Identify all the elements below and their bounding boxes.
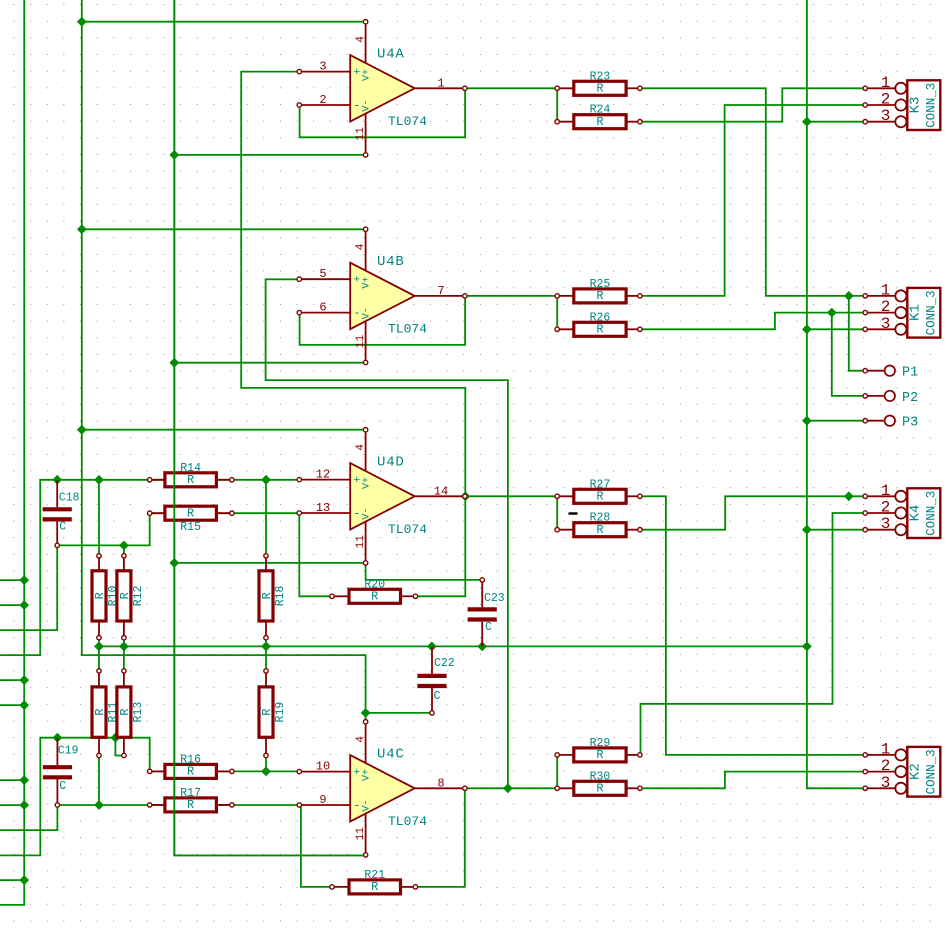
svg-text:1: 1 [881, 482, 891, 500]
wire R14 input line [0, 480, 299, 655]
svg-text:+: + [353, 275, 360, 287]
svg-text:1: 1 [881, 281, 891, 299]
resistor R12 [117, 554, 145, 640]
svg-text:R: R [596, 289, 603, 303]
resistor R29 [555, 737, 642, 762]
svg-text:2: 2 [881, 91, 891, 109]
junction at 81.8,229.3 [78, 225, 86, 233]
wire C18 bottom exit [0, 545, 57, 630]
capacitor C23 [468, 578, 505, 647]
wire U4D pin4 line [82, 429, 366, 431]
wire U4B out to R25 [465, 295, 557, 297]
wire C19 bottom exit [0, 805, 57, 830]
wire R27 to K2 pin1 [640, 496, 865, 755]
junction at 57.2,479.8 [53, 476, 61, 484]
wire R20 right to U4D out [415, 496, 465, 596]
svg-text:K1: K1 [908, 304, 924, 321]
junction at 24.2,780.1 [20, 776, 28, 784]
resistor R17 [148, 787, 235, 812]
wire U4B feedback loop [300, 296, 466, 345]
svg-text:-: - [353, 798, 360, 812]
svg-text:R: R [93, 708, 107, 715]
wire left stub row7 [0, 879, 24, 881]
wire U4B pin4 line [82, 228, 366, 230]
svg-text:3: 3 [881, 515, 891, 533]
svg-text:C22: C22 [434, 657, 455, 670]
wire R12 top stub [123, 545, 125, 555]
junction at 81.8,429.7 [78, 426, 86, 434]
svg-text:R15: R15 [180, 521, 201, 534]
svg-text:R: R [187, 798, 194, 812]
svg-text:C23: C23 [484, 592, 505, 605]
capacitor C19 [43, 738, 79, 808]
resistor R10 [92, 554, 120, 640]
pin P3 [863, 416, 918, 431]
junction at 266,646.4 [262, 642, 270, 650]
svg-text:K4: K4 [908, 505, 924, 522]
wire R13 bottom jog [115, 738, 124, 756]
resistor R25 [555, 278, 642, 303]
resistor R18 [259, 554, 287, 640]
svg-text:V+: V+ [362, 477, 373, 489]
svg-text:V-: V- [362, 307, 373, 319]
resistor R30 [555, 770, 642, 795]
svg-text:+: + [353, 767, 360, 779]
svg-text:V+: V+ [362, 277, 373, 289]
junction at 99,479.8 [95, 476, 103, 484]
svg-text:R: R [371, 590, 378, 604]
wire left stub row4 [0, 704, 24, 706]
svg-text:C: C [59, 521, 66, 534]
wire left stub row2 [0, 604, 24, 606]
wire U4A pin3 net to U4D output [241, 72, 465, 497]
wire P3 stub [807, 420, 865, 422]
svg-text:R: R [371, 880, 378, 894]
svg-text:K3: K3 [908, 97, 924, 114]
svg-text:10: 10 [316, 760, 330, 774]
svg-text:K2: K2 [908, 763, 924, 780]
svg-text:1: 1 [881, 74, 891, 92]
svg-text:2: 2 [881, 499, 891, 517]
wire K1 pin3 stub [807, 328, 865, 330]
svg-text:14: 14 [434, 484, 448, 498]
wire R11 bottom stub [98, 756, 100, 806]
resistor R27 [555, 478, 642, 503]
wire rail3 V- rail [174, 0, 364, 855]
svg-text:R: R [118, 708, 132, 715]
junction at 482.2,646.4 [478, 642, 486, 650]
wire R18 bottom stub [265, 638, 267, 647]
junction at 99,805.0 [95, 801, 103, 809]
svg-text:2: 2 [881, 298, 891, 316]
svg-text:R: R [596, 82, 603, 96]
svg-text:R12: R12 [132, 585, 145, 606]
wire U4C feedback via R21 [301, 805, 332, 887]
svg-text:CONN_3: CONN_3 [924, 491, 938, 536]
junction at 431.8,646.4 [428, 642, 436, 650]
wire C19 top line to R16 [0, 738, 299, 856]
junction at 174.3,562.9 [170, 559, 178, 567]
svg-text:3: 3 [881, 315, 891, 333]
svg-text:R: R [118, 592, 132, 599]
svg-text:8: 8 [437, 776, 444, 790]
svg-text:R: R [187, 765, 194, 779]
svg-text:TL074: TL074 [388, 322, 427, 337]
wire R30 to K2 pin2 [640, 772, 865, 789]
op-amp U4C TL074 [297, 720, 467, 858]
wire U4A feedback loop [300, 88, 466, 137]
svg-text:C: C [485, 621, 492, 634]
svg-text:4: 4 [355, 736, 367, 743]
wire R18 top stub [265, 480, 267, 556]
svg-text:R: R [260, 708, 274, 715]
junction at 806.9,121.7 [803, 118, 811, 126]
wire C19 bottom to R17/pin9 [57, 804, 301, 806]
svg-text:3: 3 [881, 107, 891, 125]
resistor R16 [148, 753, 235, 778]
junction at 848.8,496.3 [845, 492, 853, 500]
junction at 123.9,545.4 [120, 541, 128, 549]
junction at 266,479.8 [262, 476, 270, 484]
wire R27-R28 input riser [556, 496, 558, 529]
wire left stub row5 [0, 779, 24, 781]
wire long net vertical x807 [807, 0, 865, 788]
resistor R24 [555, 104, 642, 129]
junction at 24.2,705.1 [20, 701, 28, 709]
wire P2 stub [832, 313, 865, 396]
svg-text:1: 1 [437, 76, 444, 90]
pin P1 [863, 366, 918, 381]
svg-text:C18: C18 [59, 492, 80, 505]
wire P1 stub [849, 296, 865, 371]
op-amp U4A TL074 [297, 20, 467, 158]
junction at 99,646.4 [95, 642, 103, 650]
svg-text:C: C [59, 780, 66, 793]
svg-text:11: 11 [355, 334, 367, 348]
svg-text:R: R [187, 506, 194, 520]
svg-text:1: 1 [881, 740, 891, 758]
resistor R13 [117, 669, 145, 758]
wire U4D pin11 to C23 top [366, 563, 483, 580]
junction at 81.8,21.7 [78, 18, 86, 26]
junction at 174.3,362.7 [170, 359, 178, 367]
wire R23-R24 input riser [556, 88, 558, 121]
svg-text:4: 4 [355, 243, 367, 250]
wire K4 pin3 stub [807, 529, 865, 531]
svg-text:C: C [434, 690, 441, 703]
wire R11 top stub [98, 646, 100, 671]
connector K3 CONN_3 [863, 74, 940, 130]
svg-text:+: + [353, 475, 360, 487]
capacitor C22 [417, 646, 454, 715]
connector K2 CONN_3 [863, 740, 940, 796]
capacitor C18 [43, 480, 80, 548]
wire U4A pin11 line [174, 154, 365, 156]
svg-text:12: 12 [316, 468, 330, 482]
wire R19 bottom stub [265, 756, 267, 772]
wire R24 to K3 pin1 [640, 88, 865, 121]
wire U4D feedback via R20 left [299, 513, 332, 596]
op-amp U4B TL074 [297, 227, 467, 365]
junction at 174.3,154.9 [170, 151, 178, 159]
svg-text:CONN_3: CONN_3 [924, 83, 938, 128]
resistor R15 [148, 506, 235, 534]
junction at 465.3,496.3 [461, 492, 469, 500]
svg-text:P2: P2 [902, 391, 918, 406]
svg-text:7: 7 [437, 284, 444, 298]
svg-text:2: 2 [319, 93, 326, 107]
svg-text:6: 6 [319, 301, 326, 315]
wire K3 pin3 stub [807, 121, 865, 123]
svg-text:P1: P1 [902, 366, 918, 381]
svg-text:3: 3 [881, 774, 891, 792]
svg-text:U4D: U4D [377, 454, 405, 470]
svg-text:4: 4 [355, 36, 367, 43]
svg-text:TL074: TL074 [388, 814, 427, 829]
wire U4A pin4 line [82, 21, 366, 23]
svg-text:11: 11 [355, 127, 367, 141]
wire rail2 V+ rail [82, 0, 366, 722]
op-amp U4D TL074 [297, 428, 467, 566]
wire node A horizontal [99, 645, 807, 647]
wire R10 top stub [98, 480, 100, 556]
wire rail1 left vertical [0, 0, 24, 905]
wire rail3 redraw on top [174, 0, 364, 855]
svg-text:TL074: TL074 [388, 522, 427, 537]
junction at 24.2,605.1 [20, 601, 28, 609]
svg-text:R: R [596, 523, 603, 537]
svg-text:R: R [187, 473, 194, 487]
svg-text:4: 4 [355, 444, 367, 451]
junction at 848.8,295.9 [845, 292, 853, 300]
junction at 806.9,420.7 [803, 417, 811, 425]
junction at 24.2,680.1 [20, 676, 28, 684]
junction at 507.9,788.3 [504, 784, 512, 792]
svg-text:R: R [596, 748, 603, 762]
svg-text:-: - [353, 306, 360, 320]
junction at 57.4,737.7 [53, 734, 61, 742]
svg-text:5: 5 [319, 267, 326, 281]
junction at 115.4,737.7 [111, 734, 119, 742]
junction at 806.9,529.7 [803, 526, 811, 534]
wire U4C out to R30 [465, 787, 557, 789]
wire U4B pin5 net to U4C output [266, 279, 508, 788]
svg-text:R: R [596, 323, 603, 337]
wire left stub row3 [0, 679, 24, 681]
svg-text:V+: V+ [362, 69, 373, 81]
svg-text:R19: R19 [274, 702, 287, 723]
wire C22 bottom branch [366, 712, 433, 714]
wire C18 bottom to R15 [57, 513, 299, 545]
wire U4D pin11 line [174, 562, 365, 564]
minus mark near R28 [569, 512, 578, 514]
resistor R28 [555, 512, 642, 537]
junction at 365.6,712.9 [361, 709, 369, 717]
svg-text:2: 2 [881, 757, 891, 775]
wire R28 to K4 pin1 [640, 496, 865, 529]
resistor R21 [330, 869, 418, 894]
svg-text:R: R [596, 115, 603, 129]
resistor R19 [259, 669, 287, 758]
svg-text:3: 3 [319, 60, 326, 74]
wire U4B pin11 line [174, 362, 365, 364]
junction at 266,771.4 [262, 767, 270, 775]
resistor R26 [555, 311, 642, 336]
wire R25-R26 input riser [556, 296, 558, 329]
junction at 831.8,312.6 [828, 308, 836, 316]
connector K4 CONN_3 [863, 482, 940, 538]
svg-text:R: R [260, 592, 274, 599]
pin P2 [863, 391, 918, 406]
junction at 806.9,646.4 [803, 642, 811, 650]
connector K1 CONN_3 [863, 281, 940, 337]
svg-text:13: 13 [316, 501, 330, 515]
junction at 806.9,329.3 [803, 325, 811, 333]
wire R21 right to U4C out [415, 788, 465, 887]
wire U4D out to R27 [465, 495, 557, 497]
svg-text:R: R [596, 782, 603, 796]
svg-text:V-: V- [362, 100, 373, 112]
svg-text:U4A: U4A [377, 46, 405, 62]
wire R13 top stub [123, 646, 125, 671]
svg-text:11: 11 [355, 535, 367, 549]
wire R29-R30 input riser [556, 755, 558, 788]
wire R25 to K3 pin2 [640, 105, 865, 296]
svg-text:+: + [353, 67, 360, 79]
svg-text:V-: V- [362, 508, 373, 520]
junction at 24.2,805.1 [20, 801, 28, 809]
wire K4 pin2 to R29 [641, 513, 866, 755]
wire R12 bottom stub [123, 638, 125, 647]
wire left stub row1 [0, 579, 24, 581]
resistor R14 [148, 462, 235, 487]
svg-text:C19: C19 [58, 745, 79, 758]
svg-text:V+: V+ [362, 769, 373, 781]
junction at 24.2,580.1 [20, 576, 28, 584]
svg-text:R13: R13 [132, 702, 145, 723]
svg-text:11: 11 [355, 827, 367, 841]
svg-text:U4B: U4B [377, 254, 405, 270]
resistor R23 [555, 70, 642, 95]
wire R10 bottom stub [98, 638, 100, 647]
junction at 123.9,646.4 [120, 642, 128, 650]
wire left stub row6 [0, 804, 24, 806]
svg-text:CONN_3: CONN_3 [924, 290, 938, 335]
svg-text:R: R [93, 592, 107, 599]
junction at 24.2,880.1 [20, 876, 28, 884]
wire R19 top stub [265, 646, 267, 671]
svg-text:R18: R18 [274, 585, 287, 606]
svg-text:U4C: U4C [377, 746, 405, 762]
resistor R20 [330, 578, 418, 603]
svg-text:-: - [353, 98, 360, 112]
svg-text:9: 9 [319, 793, 326, 807]
svg-text:-: - [353, 506, 360, 520]
wire U4A out to R23 [465, 87, 557, 89]
resistor R11 [92, 669, 120, 758]
wire R23 to K1 pin1 [640, 88, 865, 296]
svg-text:P3: P3 [902, 416, 918, 431]
svg-text:TL074: TL074 [388, 114, 427, 129]
svg-text:R: R [596, 490, 603, 504]
svg-text:V-: V- [362, 800, 373, 812]
svg-text:CONN_3: CONN_3 [924, 749, 938, 794]
wire R26 to K1 pin2 [640, 313, 865, 330]
